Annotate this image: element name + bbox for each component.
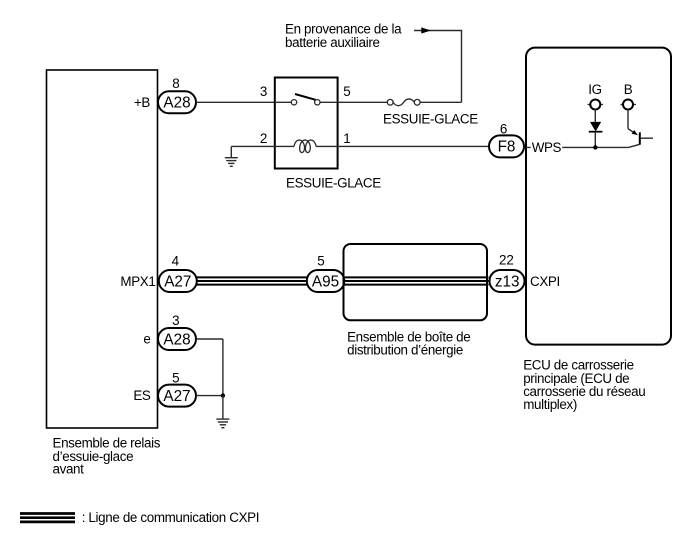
wire relay pin1 to F8 bbox=[338, 145, 488, 147]
switch contact wire inside relay bbox=[275, 101, 292, 103]
ECU box (rounded) bbox=[526, 48, 671, 345]
ground (coil) bbox=[225, 146, 238, 166]
svg-text:A27: A27 bbox=[163, 388, 190, 405]
svg-text:distribution d’énergie: distribution d’énergie bbox=[347, 343, 463, 358]
svg-text:A28: A28 bbox=[163, 331, 190, 348]
ECU label bbox=[523, 358, 645, 412]
distribution box (rounded) bbox=[344, 244, 488, 320]
diode D (IG to WPS wire) bbox=[589, 109, 603, 147]
connector A27 (ES) bbox=[158, 385, 196, 407]
transistor Q (B to WPS) bbox=[628, 109, 653, 147]
svg-text:A27: A27 bbox=[164, 273, 191, 290]
svg-text:IG: IG bbox=[588, 82, 601, 97]
connector A28 (+B) bbox=[158, 91, 196, 113]
svg-text:A95: A95 bbox=[312, 273, 339, 290]
connector z13 bbox=[490, 270, 525, 292]
svg-text:A28: A28 bbox=[163, 95, 190, 112]
svg-text:5: 5 bbox=[317, 253, 324, 268]
svg-text:multiplex): multiplex) bbox=[523, 397, 577, 412]
svg-text:5: 5 bbox=[172, 370, 179, 385]
arrow (from auxiliary battery) bbox=[421, 27, 430, 33]
WPS wire inside ECU bbox=[526, 146, 629, 148]
svg-text:2: 2 bbox=[260, 131, 267, 146]
ground (ES) bbox=[216, 419, 229, 428]
connector A28 (e) bbox=[158, 328, 196, 350]
junction dot (diode/WPS) bbox=[593, 145, 597, 149]
svg-text:3: 3 bbox=[260, 84, 267, 99]
connector F8 bbox=[489, 135, 524, 157]
connector A95 bbox=[307, 270, 345, 292]
coil wires inside relay bbox=[275, 145, 294, 147]
junction dot (ES) bbox=[221, 393, 225, 397]
CXPI communication line A95-z13 bbox=[344, 277, 488, 284]
relay coil bbox=[294, 140, 316, 153]
switch contact circles bbox=[291, 100, 296, 105]
battery note text bbox=[285, 21, 402, 49]
wire ES to junction bbox=[196, 395, 223, 397]
distribution box label bbox=[347, 329, 470, 357]
svg-text:e: e bbox=[143, 332, 150, 347]
svg-text:CXPI: CXPI bbox=[530, 274, 560, 289]
svg-text:avant: avant bbox=[53, 462, 85, 477]
signal label WPS bbox=[531, 140, 563, 155]
svg-text:: Ligne de communication CXPI: : Ligne de communication CXPI bbox=[82, 510, 259, 525]
svg-text:WPS: WPS bbox=[532, 140, 562, 155]
wire relay to fuse bbox=[338, 101, 388, 103]
coil wire left (to ground) bbox=[231, 145, 274, 147]
svg-text:3: 3 bbox=[172, 313, 179, 328]
svg-text:batterie auxiliaire: batterie auxiliaire bbox=[285, 35, 380, 50]
wire horizontal at battery note bbox=[414, 30, 462, 32]
wire fuse to corner, up bbox=[420, 101, 461, 103]
svg-text:ESSUIE-GLACE: ESSUIE-GLACE bbox=[383, 111, 478, 126]
svg-text:z13: z13 bbox=[495, 273, 520, 290]
B terminal bbox=[621, 100, 637, 110]
legend CXPI line sample bbox=[20, 514, 75, 522]
connector A27 (MPX1) bbox=[159, 270, 197, 292]
relay assembly label bbox=[53, 435, 161, 476]
svg-text:1: 1 bbox=[343, 131, 350, 146]
IG terminal bbox=[588, 100, 604, 110]
svg-text:ES: ES bbox=[133, 388, 151, 403]
svg-text:MPX1: MPX1 bbox=[120, 274, 155, 289]
wire e to junction bbox=[196, 339, 223, 396]
svg-text:ESSUIE-GLACE: ESSUIE-GLACE bbox=[286, 175, 381, 190]
switch blade bbox=[295, 94, 316, 100]
svg-text:22: 22 bbox=[499, 252, 514, 267]
relay assembly box (Ensemble de relais d'essuie-glace avant) bbox=[47, 70, 158, 428]
svg-text:4: 4 bbox=[172, 253, 180, 268]
wire A28 to relay box bbox=[196, 101, 275, 103]
wire junction to ground bbox=[222, 396, 224, 420]
svg-text:B: B bbox=[624, 82, 633, 97]
wire vertical to battery note bbox=[461, 31, 463, 103]
svg-text:8: 8 bbox=[172, 76, 179, 91]
svg-text:F8: F8 bbox=[498, 139, 516, 156]
relay box ESSUIE-GLACE bbox=[275, 78, 338, 169]
svg-text:5: 5 bbox=[343, 84, 350, 99]
svg-text:+B: +B bbox=[134, 95, 150, 110]
CXPI communication line A27-A95 bbox=[197, 277, 307, 284]
fuse ESSUIE-GLACE bbox=[387, 99, 420, 106]
